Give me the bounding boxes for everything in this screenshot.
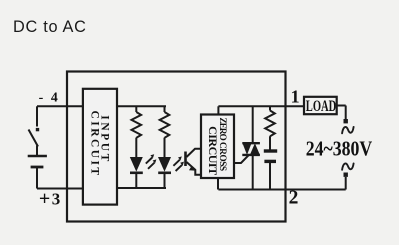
svg-text:+: + — [39, 188, 50, 210]
svg-text:CIRCUIT: CIRCUIT — [206, 126, 220, 175]
svg-text:4: 4 — [51, 90, 58, 105]
svg-text:-: - — [39, 90, 44, 105]
svg-text:24~380V: 24~380V — [306, 137, 373, 161]
svg-text:3: 3 — [52, 190, 61, 209]
svg-text:2: 2 — [289, 188, 299, 209]
svg-text:1: 1 — [291, 86, 300, 106]
svg-text:LOAD: LOAD — [306, 98, 337, 115]
